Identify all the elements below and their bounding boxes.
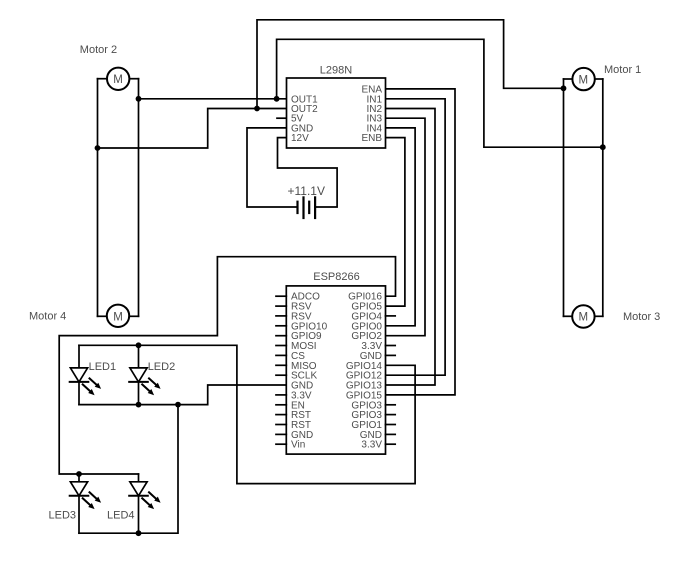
pin stub ESP8266 left ADCO: [276, 295, 286, 297]
svg-text:LED3: LED3: [49, 510, 77, 522]
junction LED2 anode: [136, 342, 142, 348]
svg-text:Motor 3: Motor 3: [623, 311, 660, 323]
svg-text:12V: 12V: [291, 133, 309, 144]
svg-text:LED2: LED2: [148, 361, 176, 373]
LED2: [129, 345, 160, 404]
svg-text:LED1: LED1: [89, 361, 117, 373]
pin labels L298N left: [291, 94, 318, 144]
svg-text:M: M: [113, 74, 123, 86]
junction OUT1 branch to top line: [274, 96, 280, 102]
pin stub ESP8266 right 3.3V: [386, 443, 396, 445]
junction LED3 anode: [76, 471, 82, 477]
LED1: [70, 345, 101, 404]
pin stub ESP8266 left 3.3V: [276, 394, 286, 396]
pin stub ESP8266 left SCLK: [276, 374, 286, 376]
junction OUT2 at Motor2/4 left rail: [95, 145, 101, 151]
pin stub ESP8266 left EN: [276, 404, 286, 406]
IC U1 L298N box: [287, 78, 386, 148]
wire ESP GND to LED1/LED2 cathode rail: [79, 385, 286, 405]
wire GPIO16 to LED3/LED4 anode rail: [59, 257, 395, 474]
LED3: [70, 474, 101, 533]
junction node dots: [76, 85, 606, 536]
pin stub ESP8266 left MOSI: [276, 345, 286, 347]
wire IN3 to GPIO2: [385, 118, 425, 336]
pin stub ESP8266 left RSV: [276, 315, 286, 317]
svg-text:+11.1V: +11.1V: [288, 184, 325, 198]
pin stub ESP8266 right GND: [386, 354, 396, 356]
junction at Motor1/3 right rail: [600, 144, 606, 150]
pin stub 5V L298N: [277, 117, 287, 119]
junction LED2 cathode: [136, 402, 142, 408]
pin stub ESP8266 left RST: [276, 424, 286, 426]
svg-text:3.3V: 3.3V: [361, 440, 382, 451]
wire ENB to GPIO5: [385, 138, 405, 307]
pin stub ESP8266 left GPIO10: [276, 325, 286, 327]
pin stub ESP8266 left GND: [276, 433, 286, 435]
pin stub ESP8266 left GPIO9: [276, 335, 286, 337]
motor M1: [564, 68, 603, 90]
wire Motor2/4 left rail: [97, 79, 99, 317]
pin stub ESP8266 left MISO: [276, 364, 286, 366]
svg-text:LED4: LED4: [107, 510, 135, 522]
wire IN2 to GPIO13: [385, 109, 435, 386]
pin stub ESP8266 left Vin: [276, 443, 286, 445]
junction OUT1 at Motor2/4 right rail: [136, 96, 142, 102]
wire LED3/4 cathode rail joining LED1/2 cathode rail: [79, 405, 178, 534]
wire Motor2/4 right rail: [138, 79, 140, 317]
wire 12V L298N to battery plus: [278, 138, 338, 207]
svg-text:M: M: [579, 74, 589, 86]
pin stub ESP8266 left RST: [276, 414, 286, 416]
wire Motor1/3 right rail: [602, 79, 604, 316]
pin stub ESP8266 right GND: [386, 433, 396, 435]
junction LED3/4 return on cathode rail: [175, 402, 181, 408]
battery BT1 +11.1V: [298, 197, 316, 218]
wire OUT1 to Motor2/4 right rail: [139, 98, 287, 100]
motor M2: [98, 68, 139, 90]
IC U2 ESP8266 box: [286, 286, 385, 454]
pin labels L298N right: [361, 84, 382, 144]
LED4: [129, 474, 160, 533]
wire IN1 to GPIO12: [385, 99, 445, 375]
wire GND L298N to battery minus: [247, 128, 298, 207]
svg-text:M: M: [113, 312, 123, 324]
pin stubs ESP8266 right: [386, 316, 396, 444]
motor M4: [98, 305, 139, 327]
pin stub ESP8266 right GPIO3: [386, 404, 396, 406]
pin stubs ESP8266 left: [276, 296, 286, 444]
wire IN4 to GPIO0: [385, 128, 415, 326]
wire OUT2 to Motor2/4 left rail: [98, 109, 287, 149]
pin stub ESP8266 right 3.3V: [386, 345, 396, 347]
wire net OUT1 via top line to Motor1/3 right rail: [277, 39, 603, 147]
wire GPIO14 to LED1/LED2 anode rail: [79, 345, 415, 483]
wire Motor1/3 left rail: [563, 79, 565, 316]
junction OUT2 branch to top line: [254, 106, 260, 112]
motor M3: [564, 305, 603, 327]
wire ENA to GPIO15: [385, 89, 455, 395]
svg-text:Motor 1: Motor 1: [604, 64, 641, 76]
pin stub ESP8266 left CS: [276, 354, 286, 356]
junction LED4 cathode: [136, 530, 142, 536]
pin stub ESP8266 right GPIO4: [386, 315, 396, 317]
pin stub ESP8266 right GPIO3: [386, 414, 396, 416]
pin labels ESP8266 right: [346, 292, 383, 451]
svg-text:M: M: [579, 312, 589, 324]
svg-text:Motor 4: Motor 4: [29, 311, 66, 323]
pin labels ESP8266 left: [291, 292, 328, 451]
svg-text:ESP8266: ESP8266: [313, 271, 359, 283]
pin stub ESP8266 left RSV: [276, 305, 286, 307]
svg-text:Vin: Vin: [291, 440, 305, 451]
svg-text:ENB: ENB: [361, 133, 382, 144]
wire net OUT2 via top line to Motor1/3 left rail: [257, 20, 564, 109]
pin stub ESP8266 right GPIO1: [386, 424, 396, 426]
svg-text:L298N: L298N: [320, 65, 352, 77]
svg-text:Motor 2: Motor 2: [80, 44, 117, 56]
junction at Motor1/3 left rail: [561, 85, 567, 91]
